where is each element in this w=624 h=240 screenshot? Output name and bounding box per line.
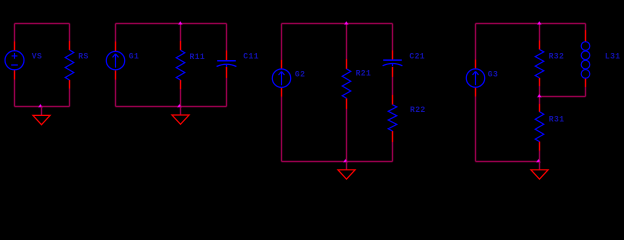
wire c2 left branch <box>114 24 116 107</box>
wire c3 ground stub <box>345 162 347 170</box>
wire c3 left branch <box>280 24 282 162</box>
svg-text:L31: L31 <box>605 53 621 62</box>
ground c2 <box>172 115 189 124</box>
wire c4 ground stub <box>538 162 540 170</box>
svg-text:C21: C21 <box>409 53 425 62</box>
svg-text:C11: C11 <box>243 53 259 62</box>
wire c3 right branch <box>391 24 393 162</box>
wire c4 middle branch <box>538 24 540 162</box>
wire c4 left branch <box>474 24 476 162</box>
svg-text:G3: G3 <box>488 71 498 80</box>
svg-text:G1: G1 <box>129 53 139 62</box>
junction c3 bottom <box>343 159 348 163</box>
svg-text:R31: R31 <box>549 115 565 124</box>
svg-text:VS: VS <box>32 53 42 62</box>
wire c2 middle branch <box>179 24 181 107</box>
pins VS <box>13 41 15 79</box>
pins L31 <box>584 30 586 87</box>
voltage source VS <box>5 51 24 70</box>
wire c4 right branch <box>584 24 586 97</box>
inductor L31 <box>581 42 590 78</box>
junction c2 bottom <box>177 104 182 108</box>
wire c1 top net <box>15 22 70 24</box>
wire c1 ground stub <box>40 107 42 116</box>
junction c2 top <box>178 21 183 25</box>
wire c3 bottom net <box>282 160 393 162</box>
svg-text:RS: RS <box>78 53 88 62</box>
pins R32 <box>538 41 540 87</box>
wire c1 right branch <box>68 24 70 107</box>
ground c3 <box>338 170 355 179</box>
pins G1 <box>114 42 116 80</box>
svg-text:R21: R21 <box>356 70 372 79</box>
junction c4 middle <box>537 94 542 98</box>
pins R11 <box>179 41 181 89</box>
wire c3 middle branch <box>345 24 347 162</box>
junction c4 bottom <box>536 159 541 163</box>
current source G1 <box>106 51 124 69</box>
current source G3 <box>466 69 484 87</box>
wire c2 right branch <box>225 24 227 107</box>
pins C21 <box>391 50 393 77</box>
wire c4 bottom net <box>476 160 540 162</box>
ground c4 <box>531 170 548 179</box>
pins C11 <box>225 51 227 78</box>
junction c3 top <box>344 21 349 25</box>
pins G2 <box>280 60 282 97</box>
wire c2 ground stub <box>179 107 181 116</box>
resistor RS <box>65 50 74 80</box>
pins G3 <box>474 60 476 97</box>
svg-text:G2: G2 <box>295 71 305 80</box>
pins R22 <box>391 95 393 142</box>
wire c4 top net <box>476 22 586 24</box>
pins RS <box>68 41 70 89</box>
wire c2 top net <box>116 22 227 24</box>
capacitor C21 <box>383 60 403 66</box>
resistor R32 <box>535 50 544 78</box>
resistor R11 <box>176 50 185 80</box>
wire c2 bottom net <box>116 105 227 107</box>
wire c4 middle net <box>540 95 586 97</box>
resistor R31 <box>535 112 544 142</box>
junction c1 bottom <box>38 104 43 108</box>
resistor R22 <box>388 105 397 131</box>
ground c1 <box>33 115 50 124</box>
junction c4 top <box>537 21 542 25</box>
capacitor C11 <box>217 61 237 67</box>
svg-text:R11: R11 <box>190 53 206 62</box>
pins R21 <box>345 59 347 109</box>
current source G2 <box>272 69 290 87</box>
svg-text:R32: R32 <box>549 53 565 62</box>
svg-text:R22: R22 <box>410 106 426 115</box>
wire c1 bottom net <box>15 105 70 107</box>
resistor R21 <box>342 69 351 98</box>
pins R31 <box>538 104 540 151</box>
wire c3 top net <box>282 22 393 24</box>
wire c1 left branch <box>13 24 15 107</box>
